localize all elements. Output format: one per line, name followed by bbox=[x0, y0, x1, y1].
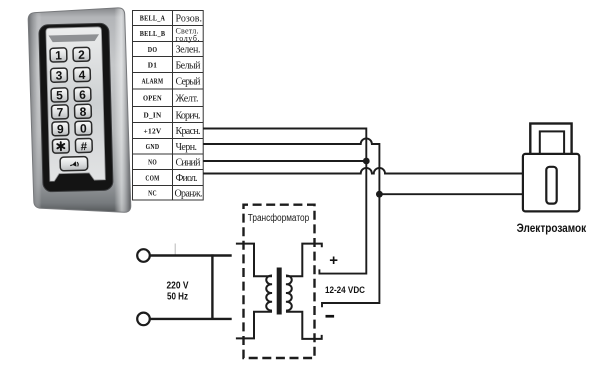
wire lock return bbox=[379, 193, 523, 195]
lock shackle bbox=[530, 124, 571, 157]
key doorbell bbox=[60, 157, 88, 171]
svg-text:5: 5 bbox=[56, 88, 63, 102]
svg-text:D1: D1 bbox=[148, 60, 158, 69]
transformer secondary winding bbox=[286, 244, 322, 339]
key 4 bbox=[73, 67, 90, 82]
svg-text:Фиол.: Фиол. bbox=[176, 173, 198, 184]
svg-text:D_IN: D_IN bbox=[144, 111, 162, 120]
keypad U1 metal body bbox=[28, 8, 131, 212]
AC wires bbox=[150, 254, 232, 320]
svg-text:COM: COM bbox=[145, 173, 159, 182]
svg-text:ALARM: ALARM bbox=[142, 77, 164, 86]
svg-text:Зелен.: Зелен. bbox=[176, 45, 201, 56]
svg-text:BELL_B: BELL_B bbox=[140, 29, 166, 38]
svg-text:DO: DO bbox=[148, 45, 158, 54]
key 8 bbox=[74, 104, 91, 119]
transformer primary winding bbox=[236, 244, 272, 339]
svg-text:50 Hz: 50 Hz bbox=[167, 291, 188, 302]
key 2 bbox=[73, 47, 90, 62]
key 7 bbox=[51, 105, 68, 120]
AC terminal circle bottom bbox=[137, 313, 150, 326]
svg-text:0: 0 bbox=[80, 121, 87, 135]
svg-text:Трансформатор: Трансформатор bbox=[248, 213, 310, 224]
key 9 bbox=[52, 122, 69, 137]
key hash bbox=[75, 138, 92, 153]
lock keyhole bbox=[546, 167, 556, 204]
svg-text:Черн.: Черн. bbox=[176, 142, 198, 153]
wire +12V red to V1 and + output bbox=[203, 129, 366, 274]
svg-text:Розов.: Розов. bbox=[176, 14, 203, 25]
svg-text:NC: NC bbox=[148, 189, 157, 198]
svg-text:OPEN: OPEN bbox=[143, 94, 162, 103]
svg-text:Оранж.: Оранж. bbox=[175, 188, 203, 199]
key 0 bbox=[75, 121, 92, 136]
junction dot A bbox=[363, 158, 370, 165]
svg-text:Красн.: Красн. bbox=[176, 126, 201, 137]
svg-text:#: # bbox=[81, 141, 88, 153]
svg-text:3: 3 bbox=[55, 68, 62, 82]
key 5 bbox=[51, 88, 68, 103]
svg-text:BELL_A: BELL_A bbox=[140, 14, 166, 23]
svg-text:6: 6 bbox=[79, 88, 86, 102]
svg-text:Желт.: Желт. bbox=[176, 94, 199, 105]
wire NO blue bbox=[203, 160, 366, 162]
svg-text:NO: NO bbox=[148, 158, 157, 167]
keypad key frame bbox=[46, 27, 105, 181]
lock body bbox=[523, 154, 579, 212]
AC terminal circle top bbox=[137, 249, 150, 262]
svg-text:1: 1 bbox=[55, 48, 62, 62]
wire COM violet to lock bbox=[203, 168, 523, 174]
terminal pin names bbox=[140, 14, 166, 198]
terminal table grid bbox=[133, 10, 204, 201]
svg-text:голуб.: голуб. bbox=[176, 34, 200, 43]
svg-text:8: 8 bbox=[79, 105, 86, 119]
key 3 bbox=[51, 68, 68, 83]
svg-text:2: 2 bbox=[78, 48, 85, 62]
svg-text:Электрозамок: Электрозамок bbox=[517, 222, 587, 235]
svg-text:9: 9 bbox=[57, 122, 64, 136]
svg-text:7: 7 bbox=[56, 105, 63, 119]
label minus bbox=[326, 315, 335, 318]
key 1 bbox=[50, 48, 67, 63]
transformer core bbox=[277, 268, 282, 315]
wire GND black to V2 and - output bbox=[203, 138, 379, 307]
svg-text:Синий: Синий bbox=[176, 158, 202, 169]
scan artifact tick bbox=[174, 244, 176, 256]
svg-text:Белый: Белый bbox=[176, 60, 202, 71]
wire colour names bbox=[175, 14, 203, 200]
svg-text:Серый: Серый bbox=[176, 77, 202, 88]
junction dot B bbox=[376, 191, 383, 198]
key star bbox=[52, 139, 69, 153]
transformer T1 dashed box bbox=[244, 205, 315, 358]
svg-text:+12V: +12V bbox=[144, 126, 162, 135]
svg-text:12-24 VDC: 12-24 VDC bbox=[325, 285, 365, 296]
svg-text:220 V: 220 V bbox=[167, 281, 189, 292]
svg-text:4: 4 bbox=[78, 68, 85, 82]
key 6 bbox=[74, 87, 91, 102]
svg-text:Корич.: Корич. bbox=[176, 111, 201, 122]
keypad front black panel bbox=[39, 23, 113, 192]
svg-text:+: + bbox=[329, 252, 338, 269]
keypad header window bbox=[49, 34, 100, 42]
svg-text:GND: GND bbox=[146, 142, 160, 151]
